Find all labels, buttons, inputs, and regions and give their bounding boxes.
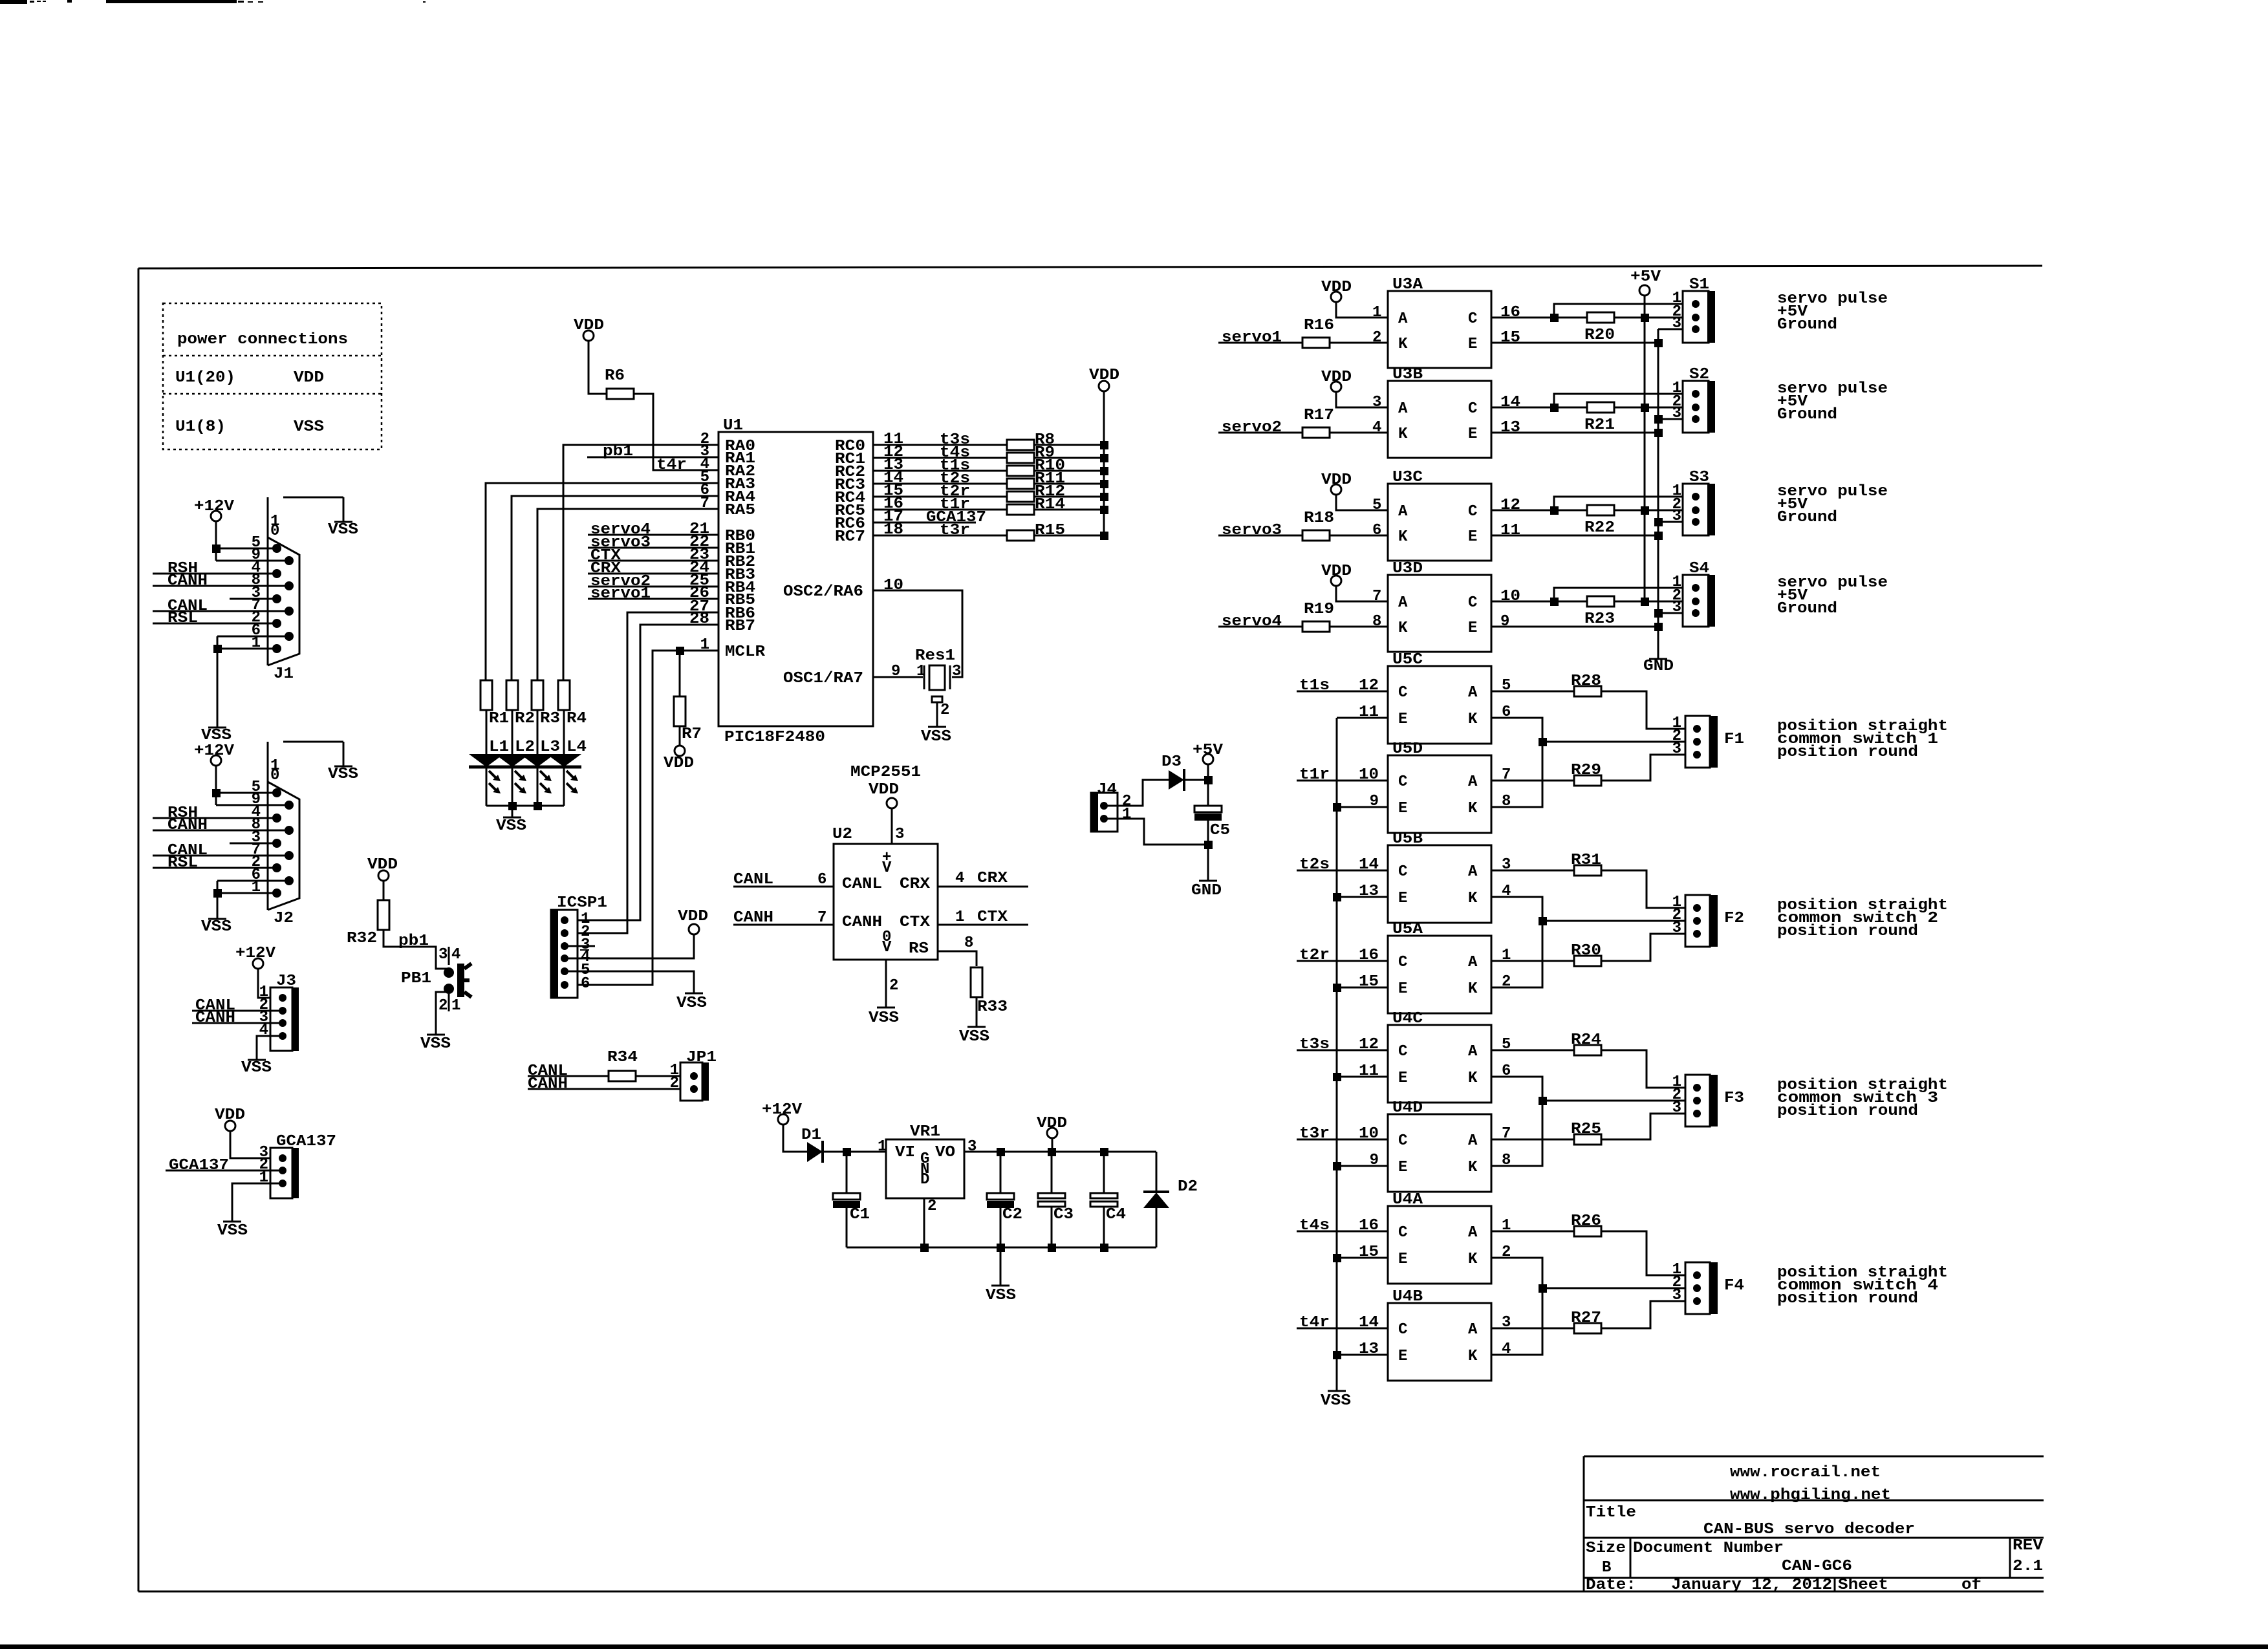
optocoupler U3A body xyxy=(1388,291,1491,368)
svg-text:F3: F3 xyxy=(1724,1090,1744,1107)
junction U3A collector riser xyxy=(1550,314,1559,322)
svg-text:C4: C4 xyxy=(1106,1206,1126,1223)
svg-text:U4A: U4A xyxy=(1392,1191,1423,1209)
junction VR1 pin2 bus xyxy=(920,1244,929,1252)
svg-text:K: K xyxy=(1468,800,1478,817)
svg-text:VDD: VDD xyxy=(1321,471,1352,489)
svg-text:U5C: U5C xyxy=(1392,651,1423,669)
svg-text:of: of xyxy=(1961,1577,1982,1594)
wire U1 RA4 to R2 xyxy=(512,496,718,680)
net RSH wire to J2 pin4 xyxy=(153,817,277,819)
svg-text:pb1: pb1 xyxy=(603,443,633,460)
junction C3 bus xyxy=(1048,1244,1056,1252)
svg-text:K: K xyxy=(1468,1070,1478,1087)
svg-text:11: 11 xyxy=(1359,704,1379,721)
svg-text:2: 2 xyxy=(927,1198,936,1215)
svg-text:R34: R34 xyxy=(607,1049,638,1066)
svg-text:+12V: +12V xyxy=(194,498,235,515)
svg-text:0: 0 xyxy=(270,767,279,784)
svg-text:t2s: t2s xyxy=(1299,856,1330,874)
junction D1/C1 xyxy=(843,1148,851,1156)
svg-text:3: 3 xyxy=(1672,1287,1681,1304)
optocoupler U4D body xyxy=(1388,1114,1491,1192)
junction GND column pin3 S4 xyxy=(1654,609,1663,618)
svg-text:11: 11 xyxy=(1359,1062,1379,1080)
svg-text:C3: C3 xyxy=(1053,1206,1074,1223)
wire U1 OSC2/RA6 to Res1 pin3 xyxy=(873,590,962,677)
resistor R22 xyxy=(1587,505,1614,515)
svg-text:CAN-BUS servo decoder: CAN-BUS servo decoder xyxy=(1703,1521,1915,1538)
wire GCA137 pin1 to VSS xyxy=(232,1183,283,1222)
wire U4C emitter to bus xyxy=(1337,1076,1388,1078)
junction pin1 J2 xyxy=(213,889,222,898)
svg-text:R14: R14 xyxy=(1035,496,1065,513)
wire U1 RC to R9 (net t4s) xyxy=(873,457,1007,459)
resistor R32 xyxy=(378,900,389,930)
net CANL wire to J3 pin2 xyxy=(192,1010,283,1012)
net CANH wire to JP1 pin2 xyxy=(528,1088,694,1090)
svg-text:E: E xyxy=(1398,711,1407,728)
svg-text:U3C: U3C xyxy=(1392,469,1423,486)
VSS stub below J1 xyxy=(217,636,219,727)
svg-text:VSS: VSS xyxy=(986,1287,1016,1304)
svg-text:VSS: VSS xyxy=(241,1059,272,1077)
svg-text:January 12, 2012: January 12, 2012 xyxy=(1671,1577,1832,1594)
svg-text:3: 3 xyxy=(1672,1099,1681,1117)
wire R23 to +5V and S4 pin2 xyxy=(1614,601,1696,603)
net RSL wire to J2 pin2 xyxy=(153,867,277,869)
pushbutton PB1 pin4 stub xyxy=(448,947,450,965)
junction cathode link F4 xyxy=(1539,1284,1547,1293)
net servo4 wire to U1 RB0 xyxy=(588,534,718,536)
svg-text:U5A: U5A xyxy=(1392,921,1423,938)
svg-text:1: 1 xyxy=(451,997,460,1015)
svg-text:9: 9 xyxy=(1370,1152,1379,1169)
wire R33 to VSS xyxy=(976,997,978,1027)
svg-text:OSC2/RA6: OSC2/RA6 xyxy=(783,583,863,601)
svg-text:VDD: VDD xyxy=(1321,279,1352,296)
wire U5D anode to R29 xyxy=(1491,780,1574,782)
wire U4B anode to R27 xyxy=(1491,1328,1574,1330)
svg-text:K: K xyxy=(1398,336,1408,353)
wire U1 RA3 to R1 xyxy=(486,483,718,680)
svg-text:RA5: RA5 xyxy=(725,502,755,519)
wire U1 RC to R15 (net t3r) xyxy=(873,535,1007,537)
svg-text:15: 15 xyxy=(1359,1244,1379,1261)
svg-text:R15: R15 xyxy=(1035,522,1065,539)
svg-text:A: A xyxy=(1468,684,1478,702)
junction cathode link F1 xyxy=(1539,738,1547,746)
svg-text:R7: R7 xyxy=(682,726,702,743)
svg-text:Ground: Ground xyxy=(1777,406,1837,424)
resistor R6 xyxy=(607,389,634,399)
resistor R3 xyxy=(532,680,543,710)
svg-text:U4C: U4C xyxy=(1392,1010,1423,1028)
resistor R23 xyxy=(1587,596,1614,607)
wire VR1 pin2 to ground bus xyxy=(923,1198,925,1247)
resistor R20 xyxy=(1587,312,1614,323)
svg-text:J2: J2 xyxy=(274,910,294,927)
junction VDD column row t4s xyxy=(1100,454,1108,462)
svg-text:3: 3 xyxy=(1672,508,1681,525)
wire U1 MCLR to ICSP1 pin6 xyxy=(565,651,718,985)
VDD power node above ICSP1 pin4 xyxy=(689,924,699,934)
resistor R34 xyxy=(609,1071,636,1081)
resistor R24 xyxy=(1574,1045,1601,1055)
net CANL wire to U2 pin6 xyxy=(733,886,834,888)
wire U5A emitter to bus xyxy=(1337,987,1388,989)
wire cathode link to F3 pin2 xyxy=(1542,1100,1697,1102)
svg-text:16: 16 xyxy=(1359,1217,1379,1234)
wire U4C anode to R24 xyxy=(1491,1050,1574,1051)
junction cathode link F2 xyxy=(1539,917,1547,925)
svg-text:1: 1 xyxy=(916,663,925,680)
net CANH wire to J1 pin8 xyxy=(153,585,289,587)
net GCA137 wire from U1 RC6 xyxy=(873,522,976,524)
svg-text:VSS: VSS xyxy=(869,1009,899,1027)
wire U3A collector to R20 xyxy=(1491,317,1588,319)
junction +12V pin5 J2 xyxy=(212,789,221,797)
wire R15 to VDD column xyxy=(1034,535,1104,537)
wire R28 to F1 pin1 xyxy=(1601,691,1697,729)
svg-text:Res1: Res1 xyxy=(915,647,955,665)
wire U5C emitter to bus xyxy=(1337,717,1388,719)
connector F2 xyxy=(1685,895,1710,947)
svg-text:VSS: VSS xyxy=(420,1035,451,1053)
resistor R29 xyxy=(1574,775,1601,786)
svg-text:A: A xyxy=(1468,1132,1478,1150)
svg-text:t3r: t3r xyxy=(1299,1125,1330,1143)
junction VDD column row t3s xyxy=(1100,441,1108,449)
GND symbol right section xyxy=(1649,658,1667,660)
capacitor C1 xyxy=(846,1152,848,1193)
wire riser to S2 pin1 xyxy=(1554,394,1696,407)
wire U4D anode to R25 xyxy=(1491,1139,1574,1141)
svg-text:R29: R29 xyxy=(1571,762,1601,779)
svg-text:VO: VO xyxy=(935,1144,955,1161)
svg-text:C: C xyxy=(1398,1224,1407,1242)
wire cathodes U4C/U4D joined xyxy=(1491,1077,1542,1166)
net GCA137 wire to pin2 xyxy=(166,1170,283,1172)
svg-text:4: 4 xyxy=(1372,419,1381,436)
svg-text:3: 3 xyxy=(967,1138,977,1156)
svg-text:R21: R21 xyxy=(1584,416,1615,434)
optocoupler U5C body xyxy=(1388,666,1491,744)
svg-text:MCLR: MCLR xyxy=(725,643,766,661)
optocoupler U3B body xyxy=(1388,381,1491,458)
junction GND column pin3 S2 xyxy=(1654,415,1663,424)
svg-text:U1(8): U1(8) xyxy=(175,418,226,436)
svg-text:C: C xyxy=(1398,863,1407,881)
junction VDD column row t1s xyxy=(1100,467,1108,475)
svg-text:J1: J1 xyxy=(274,665,294,683)
svg-text:K: K xyxy=(1398,528,1408,546)
svg-text:GND: GND xyxy=(1643,658,1674,675)
junction C2 bus xyxy=(997,1244,1005,1252)
wire U1 RB7 to ICSP1 pin1 xyxy=(565,625,718,920)
svg-text:6: 6 xyxy=(817,871,826,889)
svg-text:K: K xyxy=(1468,980,1478,998)
svg-text:2: 2 xyxy=(670,1075,679,1092)
wire U5B anode to R31 xyxy=(1491,870,1574,872)
junction C4 bus xyxy=(1100,1244,1108,1252)
wire cathode link to F2 pin2 xyxy=(1542,920,1697,922)
wire U3D collector to R23 xyxy=(1491,601,1588,603)
svg-text:9: 9 xyxy=(1500,613,1509,630)
svg-text:VDD: VDD xyxy=(678,908,708,925)
svg-text:E: E xyxy=(1468,528,1477,546)
junction GND column emitter U3D xyxy=(1654,623,1663,631)
wire R12 to VDD column xyxy=(1034,496,1104,498)
svg-text:3: 3 xyxy=(1672,740,1681,758)
svg-text:Ground: Ground xyxy=(1777,316,1837,334)
svg-text:10: 10 xyxy=(1359,1125,1379,1143)
svg-text:t3r: t3r xyxy=(940,522,970,539)
svg-text:VSS: VSS xyxy=(328,766,358,783)
svg-text:D2: D2 xyxy=(1178,1178,1198,1196)
wire J2 pins 6/1 to VSS xyxy=(217,880,289,882)
net pb1 wire from R32 to PB1 xyxy=(383,929,449,969)
resistor R8 xyxy=(1007,440,1034,450)
svg-text:CANL: CANL xyxy=(842,876,882,893)
junction pin1 J1 xyxy=(213,645,222,653)
svg-text:+12V: +12V xyxy=(762,1101,803,1119)
svg-text:K: K xyxy=(1468,1251,1478,1268)
VSS symbol below PB1 xyxy=(427,1034,445,1036)
resistor R26 xyxy=(1574,1226,1601,1236)
svg-text:VSS: VSS xyxy=(294,418,324,436)
svg-text:1: 1 xyxy=(878,1138,887,1156)
svg-text:servo2: servo2 xyxy=(1222,419,1282,436)
wire riser to S1 pin1 xyxy=(1554,304,1696,318)
svg-text:R3: R3 xyxy=(540,710,560,727)
svg-text:t2r: t2r xyxy=(1299,947,1330,964)
svg-text:U3D: U3D xyxy=(1392,560,1423,577)
svg-text:R1: R1 xyxy=(489,710,509,727)
svg-text:GCA137: GCA137 xyxy=(276,1133,336,1150)
wire VDD to R32 xyxy=(383,881,385,901)
svg-text:14: 14 xyxy=(1359,856,1379,874)
svg-text:F4: F4 xyxy=(1724,1277,1744,1295)
svg-text:E: E xyxy=(1398,890,1407,907)
svg-text:t3s: t3s xyxy=(1299,1036,1330,1053)
svg-text:VDD: VDD xyxy=(1037,1115,1067,1132)
wire cathode link to F1 pin2 xyxy=(1542,741,1697,743)
resistor R27 xyxy=(1574,1323,1601,1333)
svg-text:MCP2551: MCP2551 xyxy=(850,764,921,781)
svg-text:C: C xyxy=(1468,503,1477,521)
svg-text:U1: U1 xyxy=(723,417,743,435)
wire U5D emitter to bus xyxy=(1337,806,1388,808)
VSS symbol top right of J2 xyxy=(334,766,352,768)
svg-text:12: 12 xyxy=(1359,1036,1379,1053)
pushbutton PB1 xyxy=(444,967,454,978)
junction GND column emitter U3A xyxy=(1654,339,1663,347)
svg-text:R32: R32 xyxy=(347,930,377,947)
svg-text:U4B: U4B xyxy=(1392,1288,1423,1306)
svg-text:E: E xyxy=(1398,1348,1407,1365)
svg-text:6: 6 xyxy=(581,975,590,993)
svg-text:VSS: VSS xyxy=(201,918,232,936)
svg-text:R6: R6 xyxy=(605,367,625,385)
junction GND column emitter U3B xyxy=(1654,429,1663,437)
connector F4 xyxy=(1685,1262,1710,1314)
wire J4 pin2 to D3 xyxy=(1104,780,1169,806)
wire U4A emitter to bus xyxy=(1337,1257,1388,1259)
net servo2 wire and resistor R17 to U3B cathode xyxy=(1218,432,1302,434)
wire R3 to LED L3 xyxy=(537,710,539,755)
svg-text:5: 5 xyxy=(1372,497,1381,514)
svg-text:RB7: RB7 xyxy=(725,618,755,635)
J1 pin dots xyxy=(272,544,281,553)
svg-text:www.rocrail.net: www.rocrail.net xyxy=(1730,1464,1881,1482)
svg-text:0: 0 xyxy=(270,523,279,540)
svg-text:Sheet: Sheet xyxy=(1838,1577,1888,1594)
svg-text:R19: R19 xyxy=(1304,601,1334,618)
wire VDD to U2 pin3 xyxy=(891,808,893,844)
svg-text:C: C xyxy=(1398,1132,1407,1150)
net t3s wire to U4C collector xyxy=(1297,1050,1388,1051)
wire +12V to pins 5/9 of J2 xyxy=(215,766,217,805)
resistor R12 xyxy=(1007,491,1034,502)
junction +5V column row S4 xyxy=(1641,598,1649,606)
svg-text:VDD: VDD xyxy=(1321,563,1352,580)
svg-text:A: A xyxy=(1468,1043,1478,1061)
net servo4 wire and resistor R19 to U3D cathode xyxy=(1218,626,1302,628)
net t2r wire to U5A collector xyxy=(1297,960,1388,962)
J2 shield pin wire to VSS xyxy=(283,741,343,743)
svg-text:D: D xyxy=(920,1171,929,1189)
wire VDD to R6 xyxy=(589,341,607,394)
svg-text:VSS: VSS xyxy=(959,1028,989,1046)
junction U3B collector riser xyxy=(1550,404,1559,412)
wire riser to S3 pin1 xyxy=(1554,497,1696,510)
net CTX wire from U2 pin1 xyxy=(938,924,1028,926)
junction GND column emitter U3C xyxy=(1654,532,1663,540)
wire R8 to VDD column xyxy=(1034,444,1104,446)
wire U3D emitter to GND column xyxy=(1491,626,1658,628)
wire R31 to F2 pin1 xyxy=(1601,870,1697,908)
connector F1 xyxy=(1685,716,1710,768)
junction bus emitter U5D xyxy=(1333,803,1341,812)
svg-text:L2: L2 xyxy=(515,738,535,756)
svg-text:R17: R17 xyxy=(1304,407,1334,424)
svg-text:VSS: VSS xyxy=(921,728,951,746)
wire R27 to F4 pin3 xyxy=(1601,1301,1697,1328)
drawing frame border xyxy=(138,268,140,1591)
svg-text:CANL: CANL xyxy=(733,871,773,889)
wire J4 pin1 to GND xyxy=(1104,819,1208,845)
svg-text:K: K xyxy=(1468,711,1478,728)
svg-text:VR1: VR1 xyxy=(910,1123,940,1141)
svg-text:L1: L1 xyxy=(489,738,509,756)
svg-text:servo4: servo4 xyxy=(1222,613,1282,630)
svg-text:CANH: CANH xyxy=(167,572,208,590)
svg-text:13: 13 xyxy=(1359,1341,1379,1358)
net CANL wire to J1 pin7 xyxy=(153,610,289,612)
J1 pin3 stub wire xyxy=(230,598,277,600)
svg-text:1: 1 xyxy=(1122,806,1131,823)
J2 pin3 stub wire xyxy=(230,843,277,845)
junction C5/GND xyxy=(1204,841,1213,849)
emitter bus wire F-section xyxy=(1336,718,1338,1391)
wire riser to S4 pin1 xyxy=(1554,588,1696,601)
wire U3C collector to R22 xyxy=(1491,510,1588,512)
svg-text:8: 8 xyxy=(1372,613,1381,630)
svg-text:A: A xyxy=(1468,773,1478,791)
net t1s wire to U5C collector xyxy=(1297,691,1388,693)
GND column wire right section xyxy=(1658,329,1659,659)
svg-text:R30: R30 xyxy=(1571,942,1601,960)
svg-text:3: 3 xyxy=(1672,405,1681,422)
svg-text:PB1: PB1 xyxy=(401,970,431,987)
svg-text:14: 14 xyxy=(1359,1314,1379,1331)
svg-text:VDD: VDD xyxy=(574,317,604,334)
wire cathodes U5C/U5D joined xyxy=(1491,718,1542,807)
svg-text:pb1: pb1 xyxy=(398,932,429,950)
wire S3 pin3 to GND column xyxy=(1658,521,1696,523)
capacitor C4 xyxy=(1103,1152,1105,1193)
svg-text:VDD: VDD xyxy=(1321,369,1352,386)
scan artifact top edge marks xyxy=(0,0,27,4)
wire R34 to JP1 pin1 xyxy=(636,1075,694,1077)
wire R22 to +5V and S3 pin2 xyxy=(1614,510,1696,512)
svg-text:servo1: servo1 xyxy=(590,585,651,603)
svg-text:K: K xyxy=(1468,1348,1478,1365)
power connections table xyxy=(163,303,382,449)
svg-text:F2: F2 xyxy=(1724,910,1744,927)
svg-text:CANH: CANH xyxy=(528,1075,568,1093)
svg-text:R25: R25 xyxy=(1571,1121,1601,1138)
svg-text:A: A xyxy=(1398,594,1408,612)
svg-text:B: B xyxy=(1602,1559,1611,1577)
net t2s wire to U5B collector xyxy=(1297,870,1388,872)
svg-text:C2: C2 xyxy=(1002,1206,1022,1223)
wire U1 RB6 to ICSP1 pin2 xyxy=(565,612,718,933)
svg-text:2.1: 2.1 xyxy=(2013,1558,2043,1575)
svg-text:servo3: servo3 xyxy=(1222,522,1282,539)
wire U5C anode to R28 xyxy=(1491,691,1574,693)
junction +5V column row S2 xyxy=(1641,404,1649,412)
wire R14 to VDD column xyxy=(1034,509,1104,511)
wire S1 pin3 to GND column xyxy=(1658,329,1696,330)
svg-text:RSL: RSL xyxy=(167,610,198,627)
svg-text:t4s: t4s xyxy=(1299,1217,1330,1234)
svg-text:7: 7 xyxy=(1372,588,1381,605)
svg-text:A: A xyxy=(1468,954,1478,971)
wire U2 pin2 to VSS xyxy=(885,960,887,1008)
wire U3A emitter to GND column xyxy=(1491,342,1658,344)
wire D3 to +5V xyxy=(1184,779,1208,781)
IC U1 PIC18F2480 body xyxy=(718,432,873,726)
net CRX wire from U2 pin4 xyxy=(938,886,1028,888)
svg-text:V: V xyxy=(882,859,892,877)
svg-text:12: 12 xyxy=(1359,677,1379,695)
resistor R7 xyxy=(679,651,681,696)
resistor R14 xyxy=(1007,504,1034,515)
svg-text:t1s: t1s xyxy=(1299,677,1330,695)
wire R9 to VDD column xyxy=(1034,457,1104,459)
J1 shield pin wire to VSS xyxy=(283,497,343,499)
svg-text:t1r: t1r xyxy=(1299,766,1330,784)
svg-text:servo1: servo1 xyxy=(1222,329,1282,347)
optocoupler U4C body xyxy=(1388,1025,1491,1103)
J2 pin dots xyxy=(272,788,281,797)
net servo1 wire to U1 RB5 xyxy=(588,598,718,600)
net CTX wire to U1 RB2 xyxy=(588,560,718,562)
svg-text:C1: C1 xyxy=(850,1206,870,1223)
junction +12V pin5 J1 xyxy=(212,544,221,553)
